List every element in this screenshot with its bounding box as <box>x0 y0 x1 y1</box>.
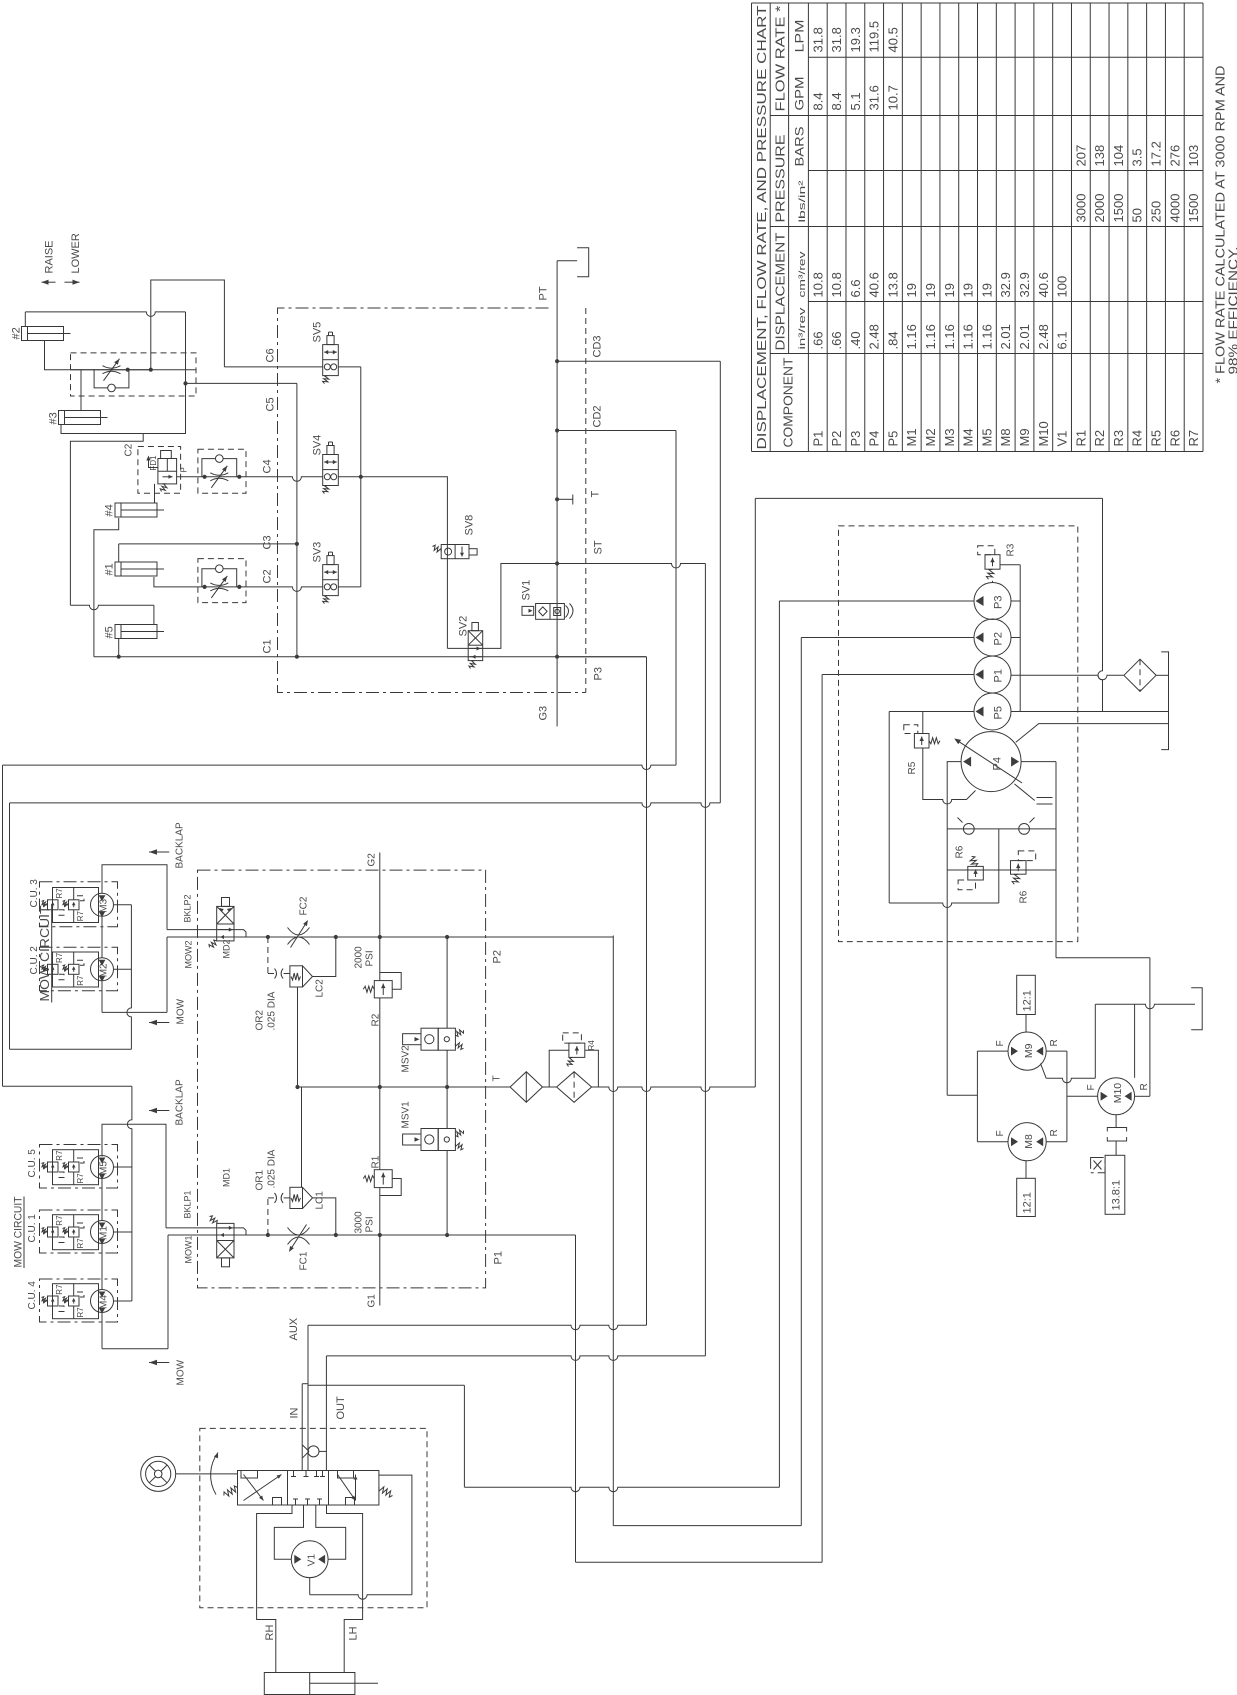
svg-text:C6: C6 <box>265 348 277 362</box>
wire steering valve right port return <box>379 1475 412 1595</box>
wire P3 output <box>779 600 974 602</box>
wire G2 G1 rail <box>379 853 381 981</box>
svg-text:P5: P5 <box>993 706 1005 719</box>
svg-text:R6: R6 <box>955 845 966 858</box>
gearbox 12:1 for M8 <box>1025 1161 1027 1179</box>
table component row labels and data values <box>810 21 1201 447</box>
svg-text:MOW CIRCUIT: MOW CIRCUIT <box>13 1196 25 1267</box>
wire M10 return to P4 <box>1135 1095 1150 1097</box>
svg-text:5.1: 5.1 <box>848 92 863 110</box>
valve LC2 logic element <box>290 966 313 987</box>
wire M2 return to MOW2 <box>101 981 103 1013</box>
cylinder #1 <box>115 562 164 576</box>
wire C2 line <box>246 587 323 592</box>
svg-text:C5: C5 <box>265 397 277 411</box>
svg-text:RAISE: RAISE <box>44 240 56 273</box>
relief valve R7 <box>42 900 59 910</box>
relief valve <box>904 725 940 748</box>
wire C5 line <box>186 382 297 384</box>
svg-text:R: R <box>1049 1039 1060 1046</box>
annotation LOWER arrow <box>65 281 80 283</box>
svg-text:P2: P2 <box>492 950 504 963</box>
svg-text:119.5: 119.5 <box>867 21 882 53</box>
svg-text:P1: P1 <box>993 669 1005 682</box>
wire OUT line <box>326 1356 705 1361</box>
svg-text:M1: M1 <box>99 1226 110 1240</box>
orifice OR1 <box>275 1193 284 1203</box>
svg-text:R5: R5 <box>1149 430 1164 447</box>
svg-text:cm³/rev: cm³/rev <box>797 251 808 297</box>
valve SV8 <box>433 545 478 559</box>
svg-text:OR2: OR2 <box>255 1010 266 1031</box>
svg-text:V1: V1 <box>307 1554 318 1567</box>
gearbox 13.8:1 for M10 <box>1105 1155 1125 1214</box>
svg-text:.40: .40 <box>848 331 863 349</box>
svg-text:C2: C2 <box>262 569 274 583</box>
svg-text:M2: M2 <box>923 428 938 446</box>
wire P5 suction line <box>1011 711 1169 713</box>
wire F rail from P4 <box>947 1094 977 1096</box>
wire CD2 to lower backlap net <box>675 431 677 766</box>
svg-text:R7: R7 <box>55 1215 64 1226</box>
svg-text:ST: ST <box>593 540 605 554</box>
svg-text:P3: P3 <box>848 431 863 447</box>
flow control needle valve with check bypass <box>198 559 246 603</box>
wire pump suction gallery <box>1019 565 1021 711</box>
wire lower group feed loop BKLP1 <box>102 1124 166 1228</box>
svg-text:M10: M10 <box>1112 1083 1124 1104</box>
flow control needle valve with check bypass <box>71 353 197 396</box>
svg-text:T: T <box>590 491 602 498</box>
svg-text:MOW: MOW <box>176 1359 187 1385</box>
svg-text:12:1: 12:1 <box>1022 1192 1034 1213</box>
svg-text:32.9: 32.9 <box>998 272 1013 297</box>
svg-text:17.2: 17.2 <box>1149 141 1164 166</box>
wire lower backlap branches <box>114 1166 132 1168</box>
svg-text:MSV2: MSV2 <box>401 1045 412 1073</box>
valve FD1 dashed box <box>138 447 181 494</box>
svg-text:R2: R2 <box>371 1013 382 1026</box>
filter <box>557 1072 592 1103</box>
svg-text:M10: M10 <box>1036 421 1051 446</box>
annotation BACKLAP arrow lower <box>149 1110 169 1112</box>
wire P2 output <box>801 637 974 639</box>
svg-text:MOW1: MOW1 <box>184 1236 194 1264</box>
svg-text:R: R <box>1049 1129 1060 1136</box>
svg-text:207: 207 <box>1073 145 1088 167</box>
control unit box C.U. 5 <box>40 1145 118 1189</box>
wire LC1 outlet to P1 line <box>313 1198 336 1235</box>
svg-text:6.6: 6.6 <box>848 279 863 297</box>
pump P5 <box>974 693 1011 730</box>
svg-text:CD2: CD2 <box>592 405 604 427</box>
relief valve R7 <box>63 964 80 974</box>
wire R3 to gallery <box>1000 564 1020 566</box>
svg-text:2000: 2000 <box>1092 194 1107 223</box>
relief valve <box>978 546 1000 579</box>
node junction dots flow control 1 <box>126 368 130 372</box>
wire R6 check line <box>947 828 1056 830</box>
wire PT to tank <box>557 260 577 262</box>
svg-text:6.1: 6.1 <box>1055 331 1070 349</box>
wire T return riser <box>754 498 756 1087</box>
wire P5 left rail down <box>888 712 890 904</box>
svg-text:OUT: OUT <box>335 1396 347 1420</box>
wire R6 cross valve line <box>947 869 1056 871</box>
svg-text:50: 50 <box>1130 208 1145 222</box>
svg-text:#4: #4 <box>104 504 116 516</box>
svg-text:R1: R1 <box>1073 430 1088 447</box>
svg-text:LPM: LPM <box>793 20 807 53</box>
wire RH loop <box>257 1505 292 1673</box>
svg-text:1.16: 1.16 <box>923 324 938 349</box>
wire cylinder 2 rod-end loop to C5 leg <box>24 312 26 327</box>
svg-text:250: 250 <box>1149 201 1164 223</box>
svg-text:R7: R7 <box>55 1284 64 1295</box>
valve SV1 <box>522 604 573 620</box>
svg-text:3000: 3000 <box>1073 194 1088 223</box>
wire pump P3 to steering feed <box>778 601 780 1487</box>
svg-text:19: 19 <box>923 283 938 297</box>
flow control FC1 <box>288 1225 310 1253</box>
check valve steering inlet <box>319 1450 326 1452</box>
wire C5-C3-C1 common vertical <box>296 383 298 656</box>
wire C4 to SV8 <box>361 477 448 649</box>
wire R4 bypass around filter <box>549 1050 569 1087</box>
svg-text:MSV1: MSV1 <box>401 1101 412 1129</box>
annotation MOW arrow upper <box>149 1022 169 1024</box>
svg-text:10.8: 10.8 <box>829 272 844 297</box>
svg-text:DISPLACEMENT: DISPLACEMENT <box>774 232 788 350</box>
wire C6 line <box>224 366 322 368</box>
svg-text:.66: .66 <box>810 331 825 349</box>
relief valve R7 <box>42 1162 59 1172</box>
svg-text:M8: M8 <box>998 428 1013 446</box>
control unit box C.U. 2 <box>40 947 118 990</box>
node junction dots flow control 3 <box>203 475 207 479</box>
wire V1 left feed <box>274 1505 303 1559</box>
svg-text:COMPONENT: COMPONENT <box>782 357 796 447</box>
tank <box>1161 652 1168 750</box>
valve FD1 <box>158 451 177 492</box>
svg-text:PRESSURE: PRESSURE <box>774 135 788 223</box>
R7 relief pair inner box <box>53 1215 99 1250</box>
svg-text:BARS: BARS <box>793 127 807 167</box>
motor M2 <box>91 958 114 982</box>
annotation rotation arc <box>211 1453 218 1495</box>
flow control FC2 <box>288 920 310 948</box>
svg-text:M3: M3 <box>99 898 110 912</box>
relief valve <box>1011 851 1036 884</box>
wire P1 suction to filter <box>1011 675 1124 680</box>
svg-text:M9: M9 <box>1017 428 1032 446</box>
wire cylinder 2 cap-end to needle valve line <box>45 341 151 370</box>
relief valve R7 <box>63 900 80 910</box>
pump P3 <box>974 583 1011 620</box>
tank <box>1191 988 1202 1030</box>
svg-text:98% EFFICIENCY.: 98% EFFICIENCY. <box>1227 247 1237 375</box>
svg-text:1.16: 1.16 <box>961 324 976 349</box>
svg-text:R7: R7 <box>76 911 85 922</box>
svg-text:AUX: AUX <box>288 1317 300 1340</box>
svg-text:in³/rev: in³/rev <box>797 307 808 349</box>
svg-text:P1: P1 <box>493 1251 505 1264</box>
svg-text:BKLP1: BKLP1 <box>183 1190 193 1218</box>
control unit box C.U. 4 <box>40 1279 118 1322</box>
cylinder #5 <box>115 625 164 639</box>
svg-text:BACKLAP: BACKLAP <box>175 822 186 868</box>
pilot dashes R7 <box>56 1306 65 1312</box>
svg-text:SV5: SV5 <box>312 322 324 343</box>
svg-text:M3: M3 <box>942 428 957 446</box>
wire R5 branch <box>922 712 924 734</box>
motor M4 <box>91 1290 114 1314</box>
wire C1/P3 port to AUX line <box>646 657 648 1325</box>
R7 relief pair inner box <box>53 952 99 987</box>
table: DISPLACEMENT FLOW RATE AND PRESSURE CHART grid <box>752 3 1204 452</box>
motor V1 <box>291 1541 328 1578</box>
pump group dashed boundary <box>839 526 1078 942</box>
annotation MOW arrow lower <box>149 1362 169 1364</box>
svg-text:* FLOW RATE CALCULATED AT 3000: * FLOW RATE CALCULATED AT 3000 RPM AND <box>1214 66 1228 384</box>
wire motor case drain to tank <box>1041 1064 1047 1079</box>
relief valve R7 <box>42 1227 59 1237</box>
flow control needle valve with check bypass <box>198 449 246 493</box>
svg-text:M5: M5 <box>979 428 994 446</box>
wire BKLP1 line <box>166 1227 234 1229</box>
svg-text:SV3: SV3 <box>312 542 324 563</box>
annotation RAISE arrow <box>42 281 56 283</box>
svg-text:138: 138 <box>1092 145 1107 167</box>
svg-text:P1: P1 <box>810 431 825 447</box>
wire CD3 to upper backlap net <box>719 361 721 803</box>
manifold boundary dash-dot box top assembly <box>278 308 586 693</box>
R7 relief pair inner box <box>53 1284 99 1319</box>
wire cyl5 cap-end to C1 <box>118 639 120 657</box>
svg-text:R3: R3 <box>1111 430 1126 447</box>
wire MSV rail <box>446 937 448 1028</box>
wire LC1 drain to T line <box>301 1087 303 1187</box>
steering control valve V5 body <box>224 1471 393 1506</box>
motor M1 <box>91 1221 114 1245</box>
wire cyl5 rod feed <box>70 605 153 610</box>
svg-text:SV8: SV8 <box>464 515 476 536</box>
wire M4 return to MOW1 <box>101 1312 103 1349</box>
svg-text:R7: R7 <box>55 888 64 899</box>
wire P4 drain to tank line <box>1016 724 1169 743</box>
motor M8 <box>1008 1123 1046 1161</box>
valve MSV1 <box>403 1129 464 1151</box>
svg-text:R7: R7 <box>76 1307 85 1318</box>
wire T port stub <box>557 498 573 500</box>
svg-text:3000: 3000 <box>354 1211 365 1234</box>
filter <box>510 1072 542 1103</box>
wire M10 feed from R rail <box>1067 1095 1098 1097</box>
wire wheel shaft <box>176 1473 238 1475</box>
svg-text:8.4: 8.4 <box>829 92 844 110</box>
svg-text:M4: M4 <box>961 428 976 446</box>
wire SV2 to ST riser <box>447 564 557 649</box>
svg-text:R7: R7 <box>76 1173 85 1184</box>
wire V1 return <box>309 1578 311 1595</box>
pilot dashes R7 <box>56 1237 65 1243</box>
brake icon dashed <box>1091 1158 1105 1173</box>
wire P1 output <box>822 674 974 676</box>
wire T line <box>298 1086 486 1088</box>
orifice OR2 <box>275 969 284 979</box>
control unit box C.U. 1 <box>40 1210 118 1253</box>
svg-text:FC1: FC1 <box>299 1251 310 1270</box>
svg-text:#5: #5 <box>104 626 116 638</box>
svg-text:R7: R7 <box>76 975 85 986</box>
svg-text:V1: V1 <box>1055 431 1070 447</box>
svg-text:.025 DIA: .025 DIA <box>267 1149 278 1188</box>
svg-text:2.48: 2.48 <box>867 324 882 349</box>
pilot dashes R7 <box>56 910 65 916</box>
svg-text:P3: P3 <box>593 667 605 680</box>
svg-text:R6: R6 <box>1019 890 1030 903</box>
wire SV5-SV3 right vertical <box>360 367 362 587</box>
pilot dashes R7 <box>56 974 65 980</box>
svg-text:F: F <box>995 1130 1006 1136</box>
svg-text:32.9: 32.9 <box>1017 272 1032 297</box>
node junctions on P2 line <box>266 935 270 939</box>
svg-text:BKLP2: BKLP2 <box>183 894 193 922</box>
relief valve R7 <box>63 1162 80 1172</box>
svg-text:BACKLAP: BACKLAP <box>175 1079 186 1125</box>
steering wheel <box>141 1456 176 1491</box>
wire jog to cyl5 branch <box>70 434 143 606</box>
svg-text:.66: .66 <box>829 331 844 349</box>
svg-text:MOW: MOW <box>176 998 187 1024</box>
wire R3 to P3 <box>992 581 994 583</box>
wire needle line tee down to cylinder 3 <box>80 370 82 411</box>
gearbox 12:1 for M9 <box>1025 1015 1027 1033</box>
annotation BACKLAP arrow upper <box>149 851 169 853</box>
wire steering feed riser <box>463 1385 465 1487</box>
svg-text:F: F <box>1086 1084 1097 1090</box>
svg-text:3.5: 3.5 <box>1130 148 1145 166</box>
svg-text:#3: #3 <box>48 412 60 424</box>
relief valve R7 <box>63 1296 80 1306</box>
wire LC2 outlet to P2 line <box>313 937 336 977</box>
solenoid valve SV4 <box>323 442 339 494</box>
solenoid valve SV5 <box>323 332 339 384</box>
R7 relief pair inner box <box>53 1150 99 1185</box>
svg-text:.025 DIA: .025 DIA <box>267 991 278 1030</box>
svg-text:LC1: LC1 <box>315 1191 326 1210</box>
wire C1 P3 line <box>94 656 647 658</box>
valve SV2 <box>468 623 483 669</box>
svg-text:C.U. 1: C.U. 1 <box>27 1214 38 1243</box>
svg-text:FLOW RATE *: FLOW RATE * <box>774 5 788 111</box>
wire LC2 pilot from P2 line <box>267 937 269 974</box>
valve LC1 logic element <box>290 1187 313 1208</box>
valve MD1 backlap solenoid <box>210 1216 235 1267</box>
svg-text:M1: M1 <box>904 428 919 446</box>
svg-text:LH: LH <box>348 1626 360 1640</box>
wire M5 to M1 to M4 series <box>101 1178 103 1221</box>
wire LC2 drain to T line <box>297 987 299 1087</box>
svg-text:M2: M2 <box>99 963 110 977</box>
svg-text:GPM: GPM <box>793 77 807 111</box>
svg-text:19: 19 <box>961 283 976 297</box>
wire AUX line <box>308 1325 647 1330</box>
svg-text:SV4: SV4 <box>312 435 324 456</box>
svg-text:19: 19 <box>904 283 919 297</box>
wire C6 riser from needle line <box>151 280 225 370</box>
svg-text:SV2: SV2 <box>458 616 470 637</box>
wire P4 right down to motors <box>1056 957 1150 959</box>
svg-text:13.8: 13.8 <box>885 272 900 297</box>
svg-text:2.48: 2.48 <box>1036 324 1051 349</box>
motor M5 <box>91 1156 114 1180</box>
svg-text:2.01: 2.01 <box>1017 324 1032 349</box>
wire P4 upper right link <box>1011 741 1013 743</box>
svg-text:13.8:1: 13.8:1 <box>1111 1180 1123 1211</box>
svg-text:10.7: 10.7 <box>885 85 900 110</box>
svg-text:FD1: FD1 <box>149 455 158 471</box>
svg-text:12:1: 12:1 <box>1022 990 1034 1011</box>
svg-text:C4: C4 <box>262 459 274 473</box>
wire T line through filters <box>486 1086 511 1088</box>
valve MD2 backlap solenoid <box>209 898 234 948</box>
svg-text:1500: 1500 <box>1186 194 1201 223</box>
svg-text:.84: .84 <box>885 331 900 349</box>
svg-text:LC2: LC2 <box>315 979 326 998</box>
svg-text:1500: 1500 <box>1111 194 1126 223</box>
relief valve R7 <box>63 1227 80 1237</box>
wire tank rail G3 <box>556 261 558 727</box>
wire LH loop <box>327 1505 363 1673</box>
svg-text:P5: P5 <box>885 431 900 447</box>
svg-text:2000: 2000 <box>354 946 365 969</box>
relief valve <box>363 1170 392 1188</box>
svg-text:CD3: CD3 <box>592 335 604 357</box>
svg-text:C.U. 2: C.U. 2 <box>29 946 40 975</box>
relief valve R7 <box>42 964 59 974</box>
motor M9 <box>1008 1032 1046 1070</box>
svg-text:100: 100 <box>1055 276 1070 298</box>
wire M3 to M2 series <box>101 917 103 958</box>
svg-text:P4: P4 <box>992 757 1004 770</box>
cylinder #4 <box>115 503 164 517</box>
control unit box C.U. 3 <box>40 882 118 927</box>
svg-text:R7: R7 <box>76 1238 85 1249</box>
svg-text:C3: C3 <box>262 535 274 549</box>
steering cylinder <box>264 1673 378 1695</box>
wire MOW1 P1 line <box>168 1234 217 1236</box>
svg-text:PSI: PSI <box>365 950 376 966</box>
svg-text:10.8: 10.8 <box>810 272 825 297</box>
svg-text:MD2: MD2 <box>222 939 232 958</box>
svg-text:19: 19 <box>942 283 957 297</box>
wire MOW2 P2 line <box>167 936 217 938</box>
svg-text:1.16: 1.16 <box>942 324 957 349</box>
svg-text:RH: RH <box>264 1625 276 1641</box>
svg-text:PSI: PSI <box>365 1216 376 1232</box>
wire CD2 port line <box>557 430 676 432</box>
wire IN lines <box>301 1384 303 1471</box>
svg-text:SV1: SV1 <box>521 580 533 601</box>
wire upper backlap branches <box>114 904 132 906</box>
relief valve <box>958 856 983 889</box>
wire cyl1 rod-end to C2 line <box>154 577 198 587</box>
svg-text:R4: R4 <box>587 1040 596 1051</box>
relief valve <box>363 981 392 998</box>
node junctions on P1 line <box>266 1233 270 1237</box>
svg-text:P4: P4 <box>867 431 882 447</box>
